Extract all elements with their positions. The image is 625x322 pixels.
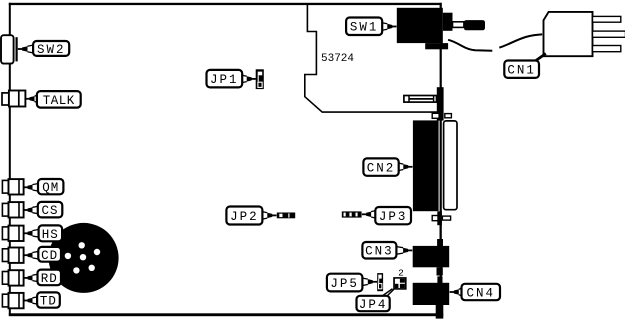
svg-text:TALK: TALK <box>43 94 75 108</box>
speaker SP1 <box>49 223 119 293</box>
label CN2 <box>363 158 412 175</box>
DB25 screw tab top <box>432 113 439 118</box>
label JP4 with diagonal pointer <box>357 289 394 312</box>
jumper JP4 block <box>393 277 406 290</box>
svg-text:JP2: JP2 <box>230 210 259 224</box>
jumper JP1 block <box>256 69 264 89</box>
jumper JP5 block <box>377 273 383 291</box>
svg-text:53724: 53724 <box>321 53 354 65</box>
board right edge <box>440 3 442 315</box>
label CN3 <box>362 242 412 259</box>
jumper JP2 block <box>277 213 295 219</box>
label CN4 <box>450 284 500 301</box>
label JP2 <box>226 207 276 225</box>
switch SW1 body <box>397 8 485 50</box>
label SW1 <box>346 18 396 36</box>
wire from SW1 to CN1 <box>448 40 492 51</box>
connector CN4 <box>413 276 450 318</box>
label JP3 <box>362 207 411 224</box>
switch SW2 on left edge <box>1 35 18 63</box>
svg-text:JP4: JP4 <box>359 298 388 312</box>
CN2 bracket bar top <box>437 87 444 120</box>
svg-text:QM: QM <box>42 181 59 195</box>
label JP1 <box>207 70 256 88</box>
LED CD <box>2 248 23 263</box>
svg-text:JP5: JP5 <box>330 277 359 291</box>
label JP5 <box>327 274 377 292</box>
CN1 pin 2 <box>593 31 625 37</box>
svg-text:CN1: CN1 <box>507 64 536 78</box>
svg-text:CN4: CN4 <box>466 286 495 300</box>
board inner cutout outline <box>305 5 441 112</box>
label CS <box>24 202 63 218</box>
wire to CN3 <box>439 225 441 240</box>
label SW2 <box>18 41 69 57</box>
LED RD <box>2 270 23 285</box>
DB25 screw tab bottom <box>432 216 439 221</box>
board top edge <box>9 3 442 5</box>
board bottom edge <box>9 313 443 316</box>
label TALK <box>26 91 81 108</box>
svg-text:CN2: CN2 <box>367 162 396 176</box>
label TD <box>24 292 60 308</box>
label RD <box>24 270 61 286</box>
svg-text:TD: TD <box>40 295 57 309</box>
svg-text:RD: RD <box>41 272 58 286</box>
connector CN3 <box>413 239 450 276</box>
LED QM <box>2 179 23 194</box>
svg-text:SW1: SW1 <box>350 21 379 35</box>
svg-text:JP1: JP1 <box>210 73 239 87</box>
CN1 pin 3 <box>593 46 621 52</box>
LED CS <box>2 202 23 217</box>
label QM <box>24 179 64 195</box>
LED HS <box>2 226 23 241</box>
svg-text:HS: HS <box>42 228 59 242</box>
CN2 bracket bar bottom <box>437 211 442 225</box>
board left edge <box>9 3 11 316</box>
svg-text:CD: CD <box>41 249 58 263</box>
connector CN2 <box>413 120 439 211</box>
svg-text:CS: CS <box>41 204 58 218</box>
svg-text:JP3: JP3 <box>379 210 408 224</box>
label CN1 with diagonal pointer <box>504 54 546 78</box>
phone jack TALK <box>2 91 25 107</box>
connector CN1 body <box>544 12 593 56</box>
label CD <box>24 247 61 263</box>
screw standoff <box>404 95 437 103</box>
label HS <box>24 225 62 242</box>
LED TD <box>2 293 23 308</box>
svg-text:2: 2 <box>398 267 404 278</box>
svg-text:CN3: CN3 <box>365 245 394 259</box>
svg-text:SW2: SW2 <box>37 43 66 57</box>
DB25 connector shell <box>444 121 457 210</box>
jumper JP3 block <box>342 211 362 217</box>
CN1 pin 1 <box>593 16 621 22</box>
